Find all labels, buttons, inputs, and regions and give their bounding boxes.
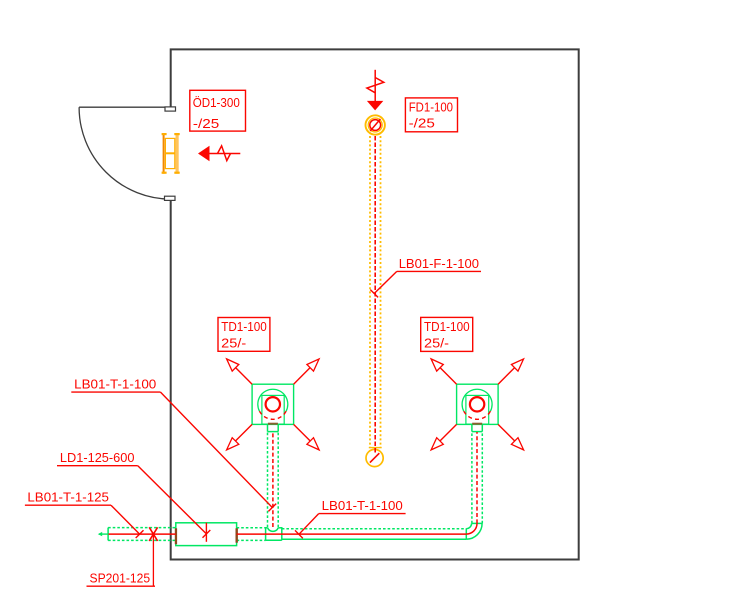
svg-text:LB01-T-1-100: LB01-T-1-100 xyxy=(322,498,403,513)
svg-text:LB01-F-1-100: LB01-F-1-100 xyxy=(399,256,479,271)
svg-text:FD1-100: FD1-100 xyxy=(409,99,453,114)
svg-text:ÖD1-300: ÖD1-300 xyxy=(193,95,240,110)
svg-text:-/25: -/25 xyxy=(409,115,435,130)
svg-text:25/-: 25/- xyxy=(424,335,449,350)
svg-text:LB01-T-1-125: LB01-T-1-125 xyxy=(27,490,109,505)
svg-text:LD1-125-600: LD1-125-600 xyxy=(60,450,135,465)
svg-text:SP201-125: SP201-125 xyxy=(90,570,151,585)
svg-text:25/-: 25/- xyxy=(221,335,246,350)
svg-text:TD1-100: TD1-100 xyxy=(424,319,470,334)
svg-text:LB01-T-1-100: LB01-T-1-100 xyxy=(74,376,156,391)
svg-text:-/25: -/25 xyxy=(193,116,219,131)
svg-text:TD1-100: TD1-100 xyxy=(221,319,267,334)
